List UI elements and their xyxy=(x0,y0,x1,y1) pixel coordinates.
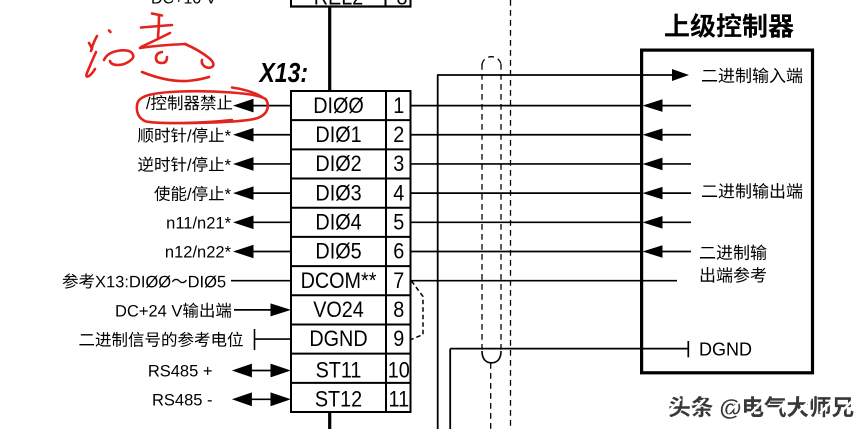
svg-text:DGND: DGND xyxy=(699,339,752,359)
svg-text:DIØ4: DIØ4 xyxy=(315,211,362,235)
svg-text:11: 11 xyxy=(389,388,410,412)
svg-text:3: 3 xyxy=(393,152,404,176)
svg-text:8: 8 xyxy=(396,0,407,10)
svg-text:n12/n22*: n12/n22* xyxy=(165,244,232,262)
svg-text:8: 8 xyxy=(393,298,404,322)
svg-text:DIØ2: DIØ2 xyxy=(315,152,361,176)
svg-text:DIØØ: DIØØ xyxy=(313,94,364,118)
svg-text:n11/n21*: n11/n21* xyxy=(166,214,231,232)
svg-text:DIØ1: DIØ1 xyxy=(315,123,361,147)
svg-text:RS485 -: RS485 - xyxy=(152,391,213,409)
svg-text:4: 4 xyxy=(393,181,404,205)
svg-text:6: 6 xyxy=(393,240,404,264)
svg-text:2: 2 xyxy=(393,123,404,147)
svg-text:5: 5 xyxy=(393,211,404,235)
svg-text:1: 1 xyxy=(393,94,404,118)
svg-text:10: 10 xyxy=(388,359,410,383)
svg-text:DIØ5: DIØ5 xyxy=(315,240,361,264)
svg-text:RS485 +: RS485 + xyxy=(148,363,213,381)
svg-text:VO24: VO24 xyxy=(313,298,364,322)
svg-text:DCOM**: DCOM** xyxy=(301,269,377,293)
svg-text:9: 9 xyxy=(393,327,404,351)
svg-text:DC+10 V: DC+10 V xyxy=(151,0,217,8)
svg-text:7: 7 xyxy=(393,269,404,293)
svg-text:REL2: REL2 xyxy=(314,0,363,10)
svg-text:X13:: X13: xyxy=(258,58,308,89)
svg-text:DIØ3: DIØ3 xyxy=(315,181,361,205)
svg-text:ST11: ST11 xyxy=(316,359,362,383)
svg-text:DGND: DGND xyxy=(309,327,367,351)
svg-text:ST12: ST12 xyxy=(315,388,362,412)
